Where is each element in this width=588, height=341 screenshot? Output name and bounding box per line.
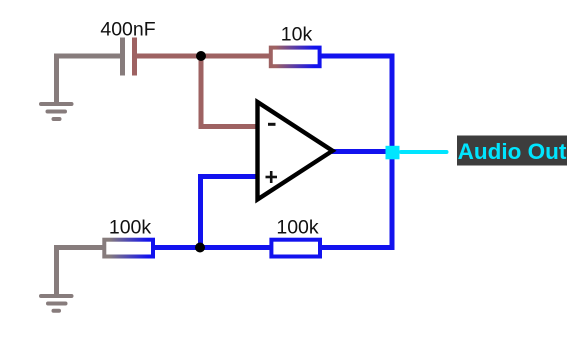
wire brown from node A down to op-amp inverting input [201,56,256,127]
node A junction dot [196,51,206,61]
wire blue from bottom junction up to op-amp non-inverting input [201,177,257,248]
resistor R3 100k [271,240,320,257]
resistor R1 10k [271,48,320,67]
wire gray from GND2 up to R2 [57,248,104,296]
resistor R2 100k [104,240,153,257]
ground GND1 [41,104,72,119]
ground GND2 [41,296,72,311]
svg-text:100k: 100k [109,217,152,239]
svg-text:400nF: 400nF [100,19,155,41]
wire brown from C1 to R1 [137,54,270,59]
label Audio Out box [457,136,567,166]
output node square [386,146,400,160]
svg-text:10k: 10k [281,24,313,46]
op-amp inverting input label - [268,123,276,126]
wire blue from R2 to R3 through node B [155,245,270,250]
wire blue from R1 to output rail [322,54,393,59]
op-amp U1 [258,102,333,200]
node B junction dot [195,243,205,253]
wire blue op-amp output to node [332,149,392,154]
wire blue from R3 to output rail [322,245,395,250]
op-amp non-inverting input label + [266,171,278,183]
wire gray from GND1 up to capacitor C1 [57,56,121,103]
capacitor C1 400nF [123,38,135,76]
svg-text:100k: 100k [276,217,319,239]
wire cyan from output node to Audio Out label [401,150,447,154]
svg-text:Audio Out: Audio Out [458,139,567,164]
wire blue output rail vertical [390,54,395,248]
